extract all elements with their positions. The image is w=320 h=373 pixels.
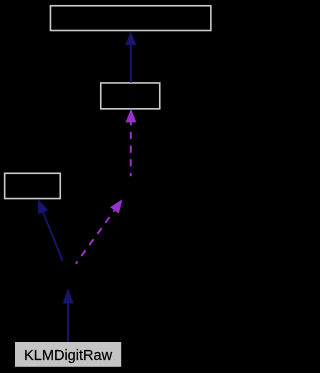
- node box top (base class): [50, 6, 210, 31]
- inheritance arrow mid box to top box (solid blue): [125, 31, 136, 82]
- svg-text:KLMDigitRaw: KLMDigitRaw: [24, 348, 113, 364]
- template relation arrow hidden node to mid box (dashed purple, vertical): [126, 109, 137, 177]
- inheritance arrow KLMDigitRaw to hidden node A (solid blue, vertical): [63, 288, 74, 341]
- template relation arrow hidden node A to hidden node C (dashed purple, diagonal): [76, 199, 123, 264]
- node box left (TObject): [5, 173, 61, 198]
- current node box KLMDigitRaw (grey filled): [15, 342, 121, 367]
- node box mid (derived template class): [101, 83, 160, 109]
- inheritance arrow hidden node A to left box (solid blue, diagonal): [38, 200, 63, 261]
